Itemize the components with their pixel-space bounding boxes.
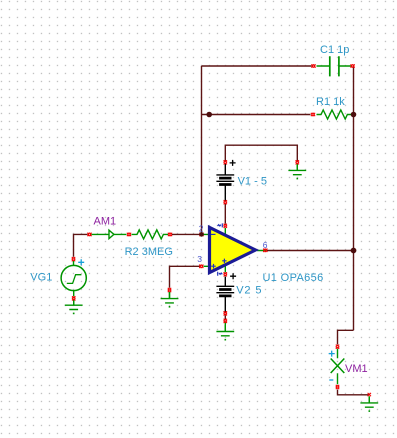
svg-text:C1 1p: C1 1p: [320, 44, 349, 56]
svg-text:AM1: AM1: [94, 216, 117, 228]
svg-text:V1 - 5: V1 - 5: [238, 176, 267, 188]
svg-text:R1 1k: R1 1k: [316, 96, 345, 108]
svg-text:3: 3: [197, 254, 202, 264]
svg-text:U1 OPA656: U1 OPA656: [263, 272, 324, 284]
svg-text:R2 3MEG: R2 3MEG: [125, 246, 173, 258]
svg-text:VG1: VG1: [30, 272, 52, 284]
svg-text:6: 6: [263, 240, 268, 250]
svg-text:VM1: VM1: [345, 363, 368, 375]
svg-text:V2 5: V2 5: [236, 285, 262, 297]
svg-text:2: 2: [199, 224, 204, 234]
